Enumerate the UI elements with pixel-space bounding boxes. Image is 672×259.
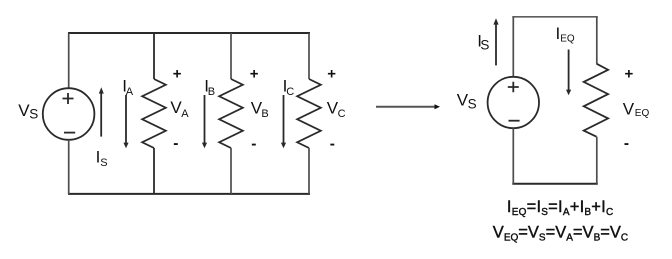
wire: branch C lower <box>308 148 310 194</box>
svg-text:A: A <box>181 108 189 120</box>
wire: source branch upper <box>68 33 70 88</box>
polarity - inside source <box>64 132 75 134</box>
svg-text:VEQ=VS=VA=VB=VC: VEQ=VS=VA=VB=VC <box>493 224 628 244</box>
svg-text:EQ: EQ <box>635 108 650 119</box>
wire: branch B upper <box>230 33 232 79</box>
voltage source VS (right) <box>488 77 539 128</box>
arrow: equivalence (between circuits) <box>376 106 435 108</box>
wire: branch EQ lower <box>596 137 598 184</box>
wire: branch A upper <box>153 33 155 79</box>
svg-text:+: + <box>327 65 336 82</box>
wire: right circuit bottom bus <box>512 183 598 185</box>
svg-text:+: + <box>625 65 634 82</box>
svg-text:IEQ=IS=IA+IB+IC: IEQ=IS=IA+IB+IC <box>507 198 614 218</box>
resistor B <box>219 79 243 148</box>
arrow IB (down) <box>204 95 206 143</box>
svg-text:-: - <box>173 135 178 152</box>
svg-text:-: - <box>251 136 256 153</box>
voltage source VS (left) <box>43 88 95 140</box>
svg-text:S: S <box>480 38 489 53</box>
svg-text:-: - <box>330 136 335 153</box>
resistor REQ <box>584 64 608 137</box>
wire: branch C upper <box>308 33 310 79</box>
wire: branch EQ upper <box>596 17 598 64</box>
arrow IEQ (down) <box>568 50 570 91</box>
arrow IS (left, up) <box>100 93 102 137</box>
wire: source branch lower <box>68 140 70 194</box>
svg-text:S: S <box>468 96 477 111</box>
wire: left circuit top bus <box>68 32 310 34</box>
svg-text:+: + <box>173 65 182 82</box>
svg-text:B: B <box>208 86 215 98</box>
arrow IA (down) <box>125 95 127 143</box>
svg-text:V: V <box>623 99 635 118</box>
polarity + inside right source <box>508 82 519 93</box>
arrow IC (down) <box>283 95 285 143</box>
svg-text:A: A <box>126 86 134 98</box>
wire: right circuit top bus <box>512 16 598 18</box>
svg-text:S: S <box>29 107 38 122</box>
polarity - inside right source <box>509 120 520 122</box>
arrow IS (right, up) <box>495 24 497 66</box>
svg-text:-: - <box>624 135 629 152</box>
polarity + inside source <box>63 93 74 104</box>
svg-text:B: B <box>261 108 268 120</box>
wire: left circuit bottom bus <box>68 193 310 195</box>
svg-text:S: S <box>100 157 107 169</box>
wire: branch A lower <box>153 148 155 194</box>
svg-text:C: C <box>286 86 294 98</box>
wire: right source branch lower <box>512 128 514 184</box>
svg-text:EQ: EQ <box>560 34 575 45</box>
wire: right source branch upper <box>512 17 514 77</box>
resistor A <box>142 79 166 148</box>
svg-text:C: C <box>338 108 346 120</box>
resistor C <box>297 79 321 148</box>
wire: branch B lower <box>230 148 232 194</box>
svg-text:+: + <box>250 65 259 82</box>
